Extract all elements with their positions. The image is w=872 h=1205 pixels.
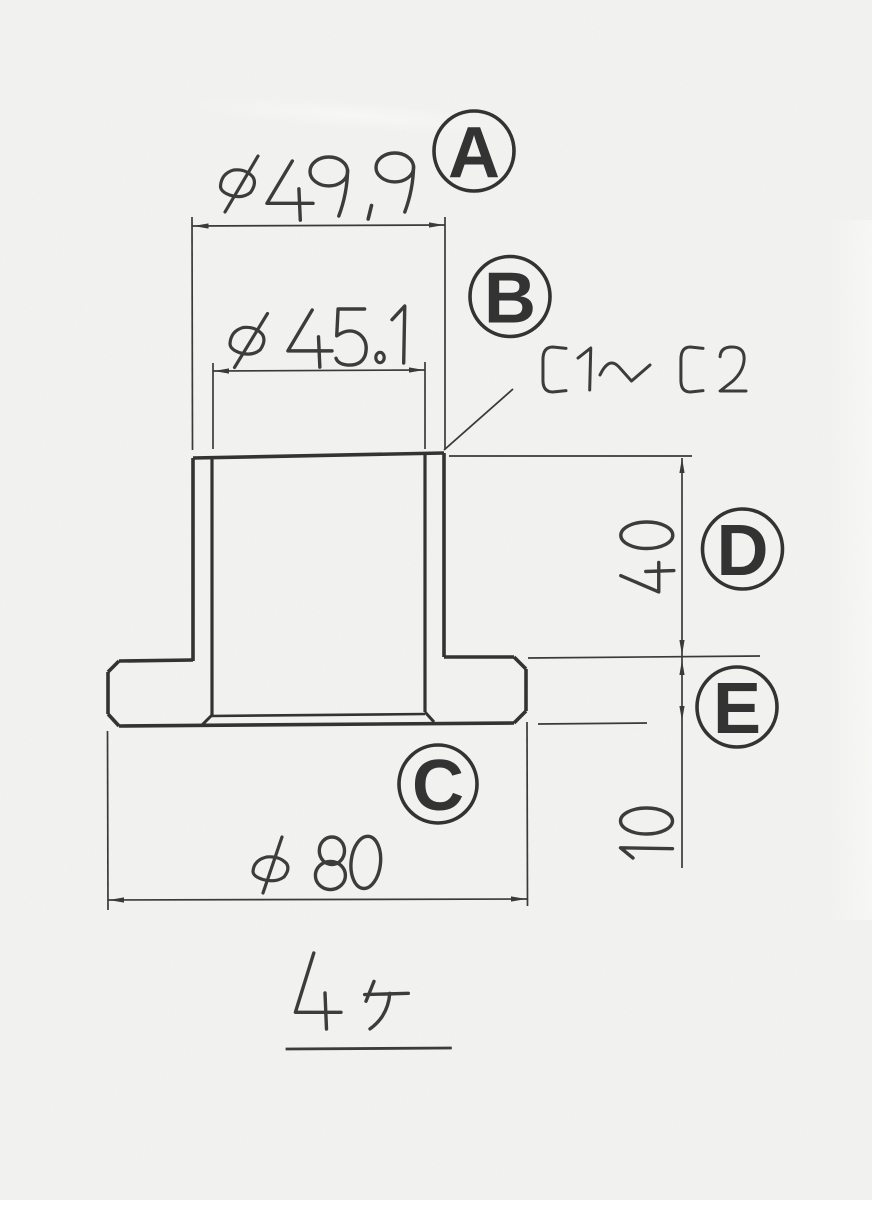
flange bottom-right chamfer — [514, 711, 526, 723]
flange top right — [444, 655, 514, 659]
dim 40 top extension line — [449, 455, 692, 457]
balloon A — [434, 111, 514, 193]
balloon D — [703, 509, 783, 591]
part right outer wall — [442, 453, 446, 657]
dim phi45.1 left extension line — [212, 363, 214, 449]
dim phi80 dimension line — [108, 899, 527, 900]
dim phi49.9 left extension line — [191, 217, 194, 450]
svg-text:B: B — [484, 259, 536, 339]
part left outer wall — [191, 458, 195, 661]
balloon B — [470, 257, 550, 339]
bore bottom-left chamfer — [201, 715, 212, 726]
flange bottom face — [119, 723, 514, 726]
flange top-right chamfer — [514, 657, 526, 669]
bore right wall — [423, 455, 426, 712]
text C1~C2 — [543, 347, 746, 392]
balloon E — [697, 667, 777, 749]
text 40 vertical — [621, 522, 674, 592]
flange top-left chamfer — [108, 661, 119, 672]
text phi 45.1 — [230, 306, 405, 368]
flange right edge — [524, 669, 528, 711]
bore bottom-right chamfer — [425, 712, 434, 722]
text phi 49,9 — [221, 153, 414, 220]
dim phi49.9 right extension line — [444, 217, 446, 449]
svg-text:C: C — [412, 746, 464, 826]
text 10 vertical — [621, 808, 673, 858]
underline for 4ke — [286, 1048, 452, 1049]
svg-text:D: D — [717, 511, 769, 591]
svg-text:E: E — [713, 669, 761, 749]
dim phi45.1 right extension line — [424, 362, 426, 449]
text phi 80 — [253, 835, 383, 893]
dim phi45.1 dimension line — [213, 370, 425, 371]
dim phi49.9 dimension line — [193, 225, 446, 226]
svg-text:A: A — [448, 113, 500, 193]
dim 10 bottom extension line (flange bottom) — [538, 723, 647, 724]
leader line to chamfer note — [444, 389, 513, 450]
flange bottom-left chamfer — [108, 714, 119, 726]
flange left edge — [106, 672, 110, 714]
text 4ke quantity note — [295, 953, 408, 1029]
balloon C — [399, 745, 477, 826]
flange top left — [119, 660, 193, 661]
bore bottom edge line — [210, 714, 425, 716]
bore left wall — [210, 458, 213, 715]
dim phi80 left extension line — [107, 731, 110, 910]
dim 40/10 shared extension line (flange top) — [528, 656, 760, 658]
dim 40/10 vertical dimension line — [681, 458, 683, 868]
dim phi80 right extension line — [526, 722, 529, 906]
part top face — [193, 453, 444, 458]
